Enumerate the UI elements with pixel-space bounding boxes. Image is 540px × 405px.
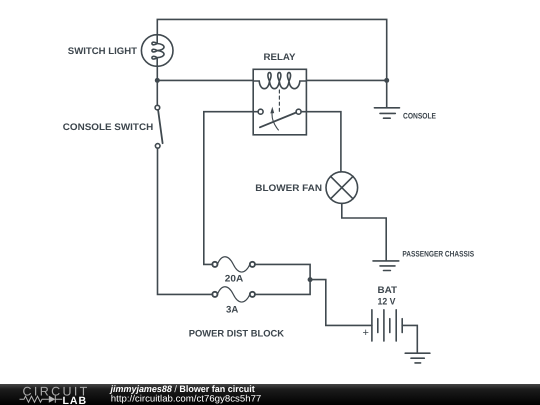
- svg-text:BLOWER FAN: BLOWER FAN: [255, 183, 322, 194]
- console switch contact top: [155, 105, 160, 110]
- relay switch contact right: [296, 109, 301, 114]
- svg-text:jimmyjames88 / Blower fan circ: jimmyjames88 / Blower fan circuit: [110, 384, 255, 394]
- fuse 20A body: [217, 257, 250, 272]
- svg-text:CONSOLE: CONSOLE: [403, 111, 437, 120]
- wire battery negative to ground: [402, 325, 417, 352]
- relay coil: [253, 73, 306, 89]
- fuse 3A terminal right: [250, 292, 255, 297]
- svg-text:PASSENGER CHASSIS: PASSENGER CHASSIS: [402, 250, 474, 259]
- CircuitLab logo resistor-diode squiggle: [20, 396, 63, 403]
- blower fan circle: [326, 172, 358, 204]
- fuse 20A terminal left: [212, 262, 217, 267]
- svg-text:+: +: [362, 327, 368, 339]
- relay actuation arrow curve: [272, 113, 278, 130]
- blower fan X blades: [331, 176, 353, 198]
- wire lamp bottom to node A: [156, 66, 158, 80]
- wire relay coil right to node B: [306, 79, 386, 81]
- svg-text:20A: 20A: [225, 274, 244, 285]
- CircuitLab logo diode triangle: [49, 396, 56, 403]
- battery BAT plates: [372, 310, 402, 341]
- wire node C to battery positive: [310, 280, 372, 326]
- wire console switch to fuse 3A: [158, 148, 213, 294]
- svg-text:3A: 3A: [226, 304, 238, 315]
- svg-text:CONSOLE SWITCH: CONSOLE SWITCH: [63, 122, 154, 133]
- wire relay contact right to blower fan: [301, 112, 341, 172]
- fuse 3A terminal left: [212, 292, 217, 297]
- svg-text:http://circuitlab.com/ct76gy8c: http://circuitlab.com/ct76gy8cs5h77: [111, 394, 261, 404]
- relay switch blade: [260, 113, 296, 128]
- svg-text:LAB: LAB: [63, 395, 88, 405]
- svg-text:SWITCH LIGHT: SWITCH LIGHT: [68, 46, 137, 57]
- wire fuse 3A to node C: [255, 280, 310, 295]
- relay box: [253, 69, 306, 135]
- junction node C dot: [308, 277, 313, 282]
- console switch blade: [158, 110, 163, 143]
- relay actuation dashed line: [278, 90, 280, 114]
- lamp SWITCH LIGHT circle: [141, 35, 173, 67]
- ground console: [374, 108, 399, 118]
- wire top bus: [157, 19, 386, 107]
- lamp filament coil: [152, 35, 164, 67]
- wire blower fan to passenger chassis ground: [342, 203, 386, 260]
- relay actuation arrowhead: [270, 107, 274, 114]
- wire fuse 20A to node C: [255, 264, 310, 279]
- relay switch contact left: [258, 109, 263, 114]
- wire node A to relay coil left: [157, 79, 253, 81]
- svg-text:POWER DIST BLOCK: POWER DIST BLOCK: [189, 328, 285, 339]
- wire node A to console switch: [156, 80, 158, 105]
- fuse 3A body: [217, 287, 250, 302]
- console switch contact bottom: [155, 144, 160, 149]
- svg-text:RELAY: RELAY: [264, 52, 297, 63]
- fuse 20A terminal right: [250, 262, 255, 267]
- wire relay contact left to fuse 20A: [204, 112, 258, 265]
- ground battery: [405, 353, 430, 363]
- ground passenger chassis: [373, 261, 399, 271]
- footer bar: [0, 384, 540, 405]
- svg-text:12 V: 12 V: [378, 297, 397, 308]
- junction node B dot: [384, 78, 389, 83]
- svg-text:BAT: BAT: [378, 285, 398, 296]
- junction node A dot: [155, 78, 160, 83]
